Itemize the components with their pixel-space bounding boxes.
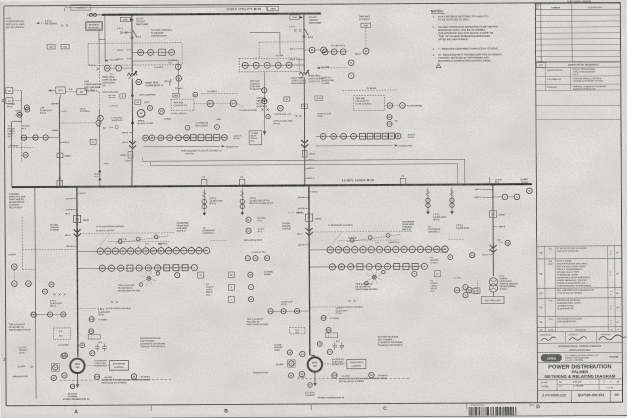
box 52 C <box>301 104 307 108</box>
OLTC control text left mid <box>59 108 101 144</box>
PT-2 text HG2 <box>98 301 118 316</box>
associated drawings table <box>536 61 621 119</box>
PT cluster PT-6 <box>240 188 274 215</box>
to bkup pts label B <box>154 60 178 69</box>
to exc control dashed HG2 <box>78 307 132 322</box>
circuit switcher blade C <box>303 28 314 39</box>
LT bus PTs tick <box>490 177 503 184</box>
PT cluster right B <box>450 187 470 230</box>
left tie line <box>35 187 36 399</box>
breaker chevrons feeder B <box>129 141 136 148</box>
reverse metering box <box>85 22 102 31</box>
exciter xfmr text HG2 <box>94 360 108 367</box>
trip PB network HG1 <box>332 231 400 244</box>
gen rating text HG2 <box>68 393 78 399</box>
meters AM V <box>104 65 132 76</box>
PT-2 text HG1 <box>336 300 356 315</box>
gen meters left HG1 <box>299 351 388 378</box>
BUTS relay <box>355 27 369 55</box>
aux CT row feeder C <box>316 133 416 139</box>
breaker 52/HG2 2000A <box>65 198 89 222</box>
exciter package text HG2 <box>140 337 165 348</box>
relay row 2 HG2 <box>77 265 197 272</box>
to bus PTs arrow C <box>316 144 413 148</box>
box 8C <box>284 97 290 101</box>
station meters right <box>493 182 532 200</box>
gen signal labels HG2 <box>50 213 77 248</box>
signature block <box>537 332 626 344</box>
HG1 SA dashed box <box>290 327 305 334</box>
feeder C drop from bus <box>303 14 305 71</box>
bus CT starburst HG2 <box>139 270 159 286</box>
feeder C join bus <box>302 149 316 185</box>
trip PB dashed lines HG2 <box>108 239 170 246</box>
to 86SS2 dashed B <box>201 91 238 93</box>
trip lockout text HG2 <box>118 285 140 293</box>
left alarm annunciator <box>12 364 59 381</box>
tie meters row <box>21 135 60 141</box>
station service feeder drop <box>492 184 495 276</box>
PHOS box <box>315 96 323 101</box>
trip and lockout dashed box B <box>171 99 257 115</box>
2PTs PT-3 text <box>273 115 301 125</box>
LA arresters C <box>289 25 302 32</box>
alarm arrow B <box>105 59 119 62</box>
note 1 bracket <box>65 4 267 12</box>
to exc control dashed HG1 <box>310 306 364 321</box>
86MT tank alarm <box>136 79 163 87</box>
surge caps PPT HG2 <box>88 334 106 356</box>
PT cluster PT-5 <box>202 189 223 216</box>
node: bus left end CO trap <box>87 13 103 16</box>
dash routes bus to rows left <box>22 249 74 269</box>
trip PB dashed lines HG1 <box>338 237 400 244</box>
gen signal labels HG1 <box>282 212 309 247</box>
breaker chevrons HG1 <box>306 228 313 235</box>
extra text top-left edge <box>7 103 16 109</box>
to 86SS2 dashed line <box>342 88 398 91</box>
left edge boxes upper <box>6 88 22 122</box>
gen leads HG2 <box>76 356 80 387</box>
extra circles near HG1 rows tail <box>412 271 441 277</box>
relay LP <box>278 105 284 111</box>
governor dashed route HG1 <box>309 231 464 240</box>
PT stack 5 PTs metering <box>36 21 68 27</box>
breaker chevrons feeder C <box>301 140 308 147</box>
MTS switch boxes <box>48 87 99 95</box>
extra relay circles feeder B right <box>193 92 198 97</box>
relay row 1 HG2 <box>77 246 210 255</box>
box 5050 feeder B <box>120 17 134 22</box>
breaker backup relay box <box>249 131 262 145</box>
box 800 <box>47 44 55 49</box>
generator feeder HG1 drop <box>308 185 311 355</box>
extra circles near HG2 rows tail <box>175 272 214 297</box>
bus CT starburst HG1 <box>365 269 385 285</box>
outertrip text HG1 <box>402 221 441 233</box>
lightning arresters B <box>117 27 132 34</box>
drawing title <box>537 364 622 379</box>
generator circle HG2 <box>70 359 84 373</box>
station breaker 1000A <box>489 211 505 218</box>
governor dashed route HG2 <box>77 232 227 241</box>
dashed boundary C <box>239 58 299 72</box>
relay row 1 HG1 <box>309 245 448 254</box>
bus 115kV utility <box>103 6 321 15</box>
bus CT cluster C <box>387 114 399 126</box>
left bus elbow risers <box>11 122 22 270</box>
bus 13.8kV 2000A <box>12 177 532 187</box>
scan barcode <box>469 402 535 415</box>
relay row feeder C (left side) <box>241 62 304 68</box>
L2 aux row <box>245 251 270 261</box>
purchase order table <box>535 0 620 63</box>
circuit switcher blade B <box>131 29 142 39</box>
LA 9A circle right <box>499 240 510 245</box>
control dashed boundary B <box>88 43 182 66</box>
engineering firm logo <box>537 354 622 363</box>
VHF AMP labels <box>474 189 493 199</box>
breaker chevrons SS <box>490 245 497 252</box>
HG1 alarm annunciator <box>253 360 306 380</box>
exciter xfmr text HG1 <box>332 359 346 366</box>
box 801 <box>61 44 69 49</box>
feeder C elbow lines <box>250 32 327 58</box>
outertrip text HG2 <box>177 223 216 235</box>
misc right HG1 labels <box>432 251 452 260</box>
governor watt transducer labels HG2 <box>96 226 125 232</box>
generator feeder HG2 drop <box>76 187 79 357</box>
supplied-by text HG1 <box>297 377 410 383</box>
tie ticks and breaker <box>52 130 71 158</box>
scale row <box>537 379 622 391</box>
generator circle HG1 <box>308 357 322 371</box>
bottom zone strip line <box>1 402 627 418</box>
breaker 52/HG1 2000A <box>297 197 321 221</box>
4160 tie feeder vertical <box>51 95 61 187</box>
to gen PTs labels <box>244 217 266 242</box>
left relays cluster <box>8 253 31 286</box>
feeder A tie down to 13.8 bus <box>98 109 110 186</box>
stub from MTS down <box>98 92 100 109</box>
aux CT row feeder B <box>143 135 242 141</box>
big boundary rectangle governor <box>143 159 465 161</box>
label ticks 4000-S bus drops <box>77 158 319 194</box>
left SA dashed box <box>53 328 70 340</box>
disconnect riser pair <box>89 15 105 89</box>
top-left bus riser labels <box>15 107 29 116</box>
trip and lockout dashed box C <box>353 95 422 110</box>
CT branch right of T1 <box>132 61 183 98</box>
top mid meters cluster <box>317 45 354 79</box>
trip PB network HG2 <box>100 233 168 246</box>
box 5052 <box>135 100 150 104</box>
excitation control box HG2 <box>84 361 128 371</box>
define dashed <box>8 144 32 157</box>
PT cluster right A <box>426 187 447 221</box>
governor watt transducer labels HG1 <box>328 225 354 227</box>
transformer T1 (OLTC) <box>127 71 137 131</box>
synch check relay 25-2 <box>430 276 480 293</box>
exciter package text HG1 <box>378 335 403 346</box>
bus PT tap boxes P3 P4 P5 <box>201 179 207 185</box>
breaker chevrons HG2 <box>74 229 81 236</box>
title block left border <box>535 3 537 403</box>
relay row feeder B top <box>117 49 176 61</box>
to remote indication B <box>185 119 222 130</box>
PT stack left of feeder B <box>97 94 126 129</box>
station service transformer SS1 <box>489 278 497 292</box>
surge caps PPT HG1 <box>326 333 344 355</box>
HG1 close wicket gate <box>274 344 292 355</box>
tie PT cluster L-PT <box>17 105 68 118</box>
to bus PTs arrow B <box>144 145 240 149</box>
transformer T2 (OLTC) <box>299 70 309 149</box>
box 5050 feeder C <box>290 15 303 19</box>
SS1 left meters <box>463 284 478 297</box>
labels 500-S 1000-S C <box>276 49 305 62</box>
mid FB boxes <box>228 272 273 303</box>
gen meters left HG2 <box>62 352 151 379</box>
extra gen meters HG1 <box>307 327 331 387</box>
P2 box on bus <box>57 178 63 186</box>
excitation control box HG1 <box>322 359 366 369</box>
trip and lockout top right <box>359 15 371 27</box>
close wicket gate <box>19 344 70 359</box>
feeder B drop from bus <box>131 15 133 72</box>
drawing number row <box>542 390 618 402</box>
notes block <box>431 9 502 68</box>
supplied-by text HG2 <box>59 378 172 384</box>
trip lockout text HG1 <box>355 284 377 292</box>
gen leads HG1 <box>310 355 317 386</box>
gen rating text HG1 <box>305 391 315 397</box>
left PT-1 cluster <box>30 282 66 317</box>
PT stack feeder C x265 <box>261 72 269 136</box>
HG1 left meters row <box>268 308 310 313</box>
relay row 2 HG1 <box>309 263 427 270</box>
feeder B lower vertical to 13.8 bus <box>120 93 135 187</box>
600V mill bld box <box>481 292 504 304</box>
revision table <box>537 246 622 332</box>
junction dots on buses <box>33 11 494 188</box>
station ticks <box>470 226 507 257</box>
extra gen meters HG2 <box>70 329 94 389</box>
relays 86T pair <box>137 105 171 125</box>
left continuation text 86BT <box>9 194 26 210</box>
